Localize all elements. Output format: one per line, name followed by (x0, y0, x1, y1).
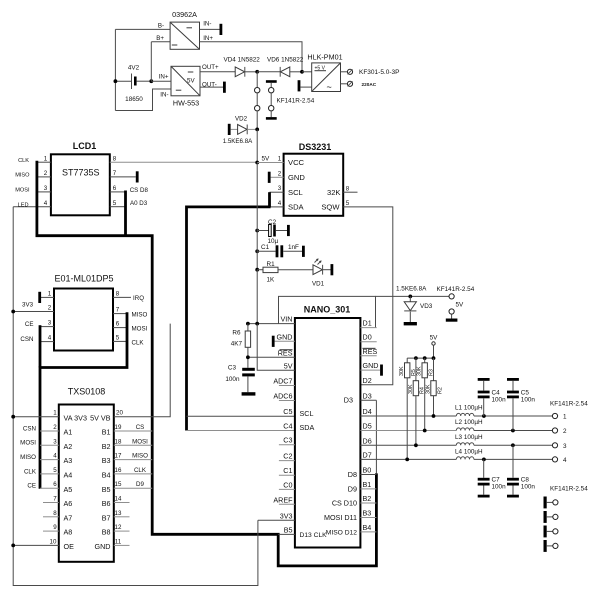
svg-text:5V: 5V (430, 335, 439, 342)
pull-up rail (407, 357, 433, 359)
svg-text:C7: C7 (492, 477, 501, 484)
wire 5V rail down from VD2 (256, 129, 258, 162)
ground bar at 03962A IN- (220, 24, 223, 35)
svg-text:C8: C8 (521, 477, 530, 484)
svg-text:MISO: MISO (15, 173, 30, 179)
connector KF141R-2.54 outputs (550, 401, 588, 464)
svg-text:E01-ML01DP5: E01-ML01DP5 (54, 274, 113, 284)
mcu NANO_301 chip box (295, 318, 361, 548)
svg-text:A4: A4 (64, 471, 73, 480)
nano pin AREF stub (279, 503, 295, 505)
svg-text:CLK: CLK (134, 467, 147, 474)
svg-text:VD1: VD1 (312, 281, 325, 288)
bus from LCD pins 5,6 down (124, 191, 127, 236)
txs pin 3 MOSI (40, 444, 59, 446)
ground bar at OUT- (223, 82, 226, 93)
ds3231 pin 4 SDA (270, 206, 284, 208)
svg-text:5: 5 (116, 334, 120, 341)
svg-text:4: 4 (563, 457, 567, 464)
svg-text:D2: D2 (363, 376, 372, 385)
svg-text:A6: A6 (64, 499, 73, 508)
lcd module LCD1 ST7735S (51, 141, 110, 215)
svg-text:R2: R2 (437, 387, 443, 394)
svg-text:3: 3 (278, 185, 282, 192)
svg-text:CS D8: CS D8 (130, 187, 149, 194)
svg-text:16: 16 (115, 467, 122, 474)
e01 pin 4 CSN (40, 341, 54, 343)
svg-text:3V3: 3V3 (22, 302, 34, 309)
svg-text:30K: 30K (417, 366, 423, 376)
inductor L4 100uH (455, 448, 552, 461)
svg-text:L4 100µH: L4 100µH (455, 448, 483, 455)
svg-text:14: 14 (115, 496, 122, 503)
left rail 3V3 vertical (13, 207, 258, 586)
svg-text:2: 2 (563, 428, 567, 435)
svg-text:100n: 100n (521, 484, 536, 491)
capacitor C1 1nF (255, 244, 304, 257)
ds3231 pin 5 SQW wire to nano D2 (343, 207, 393, 385)
svg-text:1nF: 1nF (288, 244, 299, 251)
svg-text:KF301-5.0-3P: KF301-5.0-3P (359, 69, 399, 76)
svg-text:C5: C5 (283, 407, 292, 416)
spi bus e01 right side down (40, 312, 127, 489)
svg-text:MOSI: MOSI (15, 188, 30, 194)
svg-text:CE: CE (25, 321, 34, 328)
svg-text:D6: D6 (363, 436, 372, 445)
diode VD2 1.5KE6.8A (223, 116, 257, 146)
svg-text:1.5KE6.8A: 1.5KE6.8A (223, 138, 253, 145)
svg-text:VD3: VD3 (420, 303, 433, 310)
svg-text:3: 3 (48, 320, 52, 327)
resistor R4 30K (408, 358, 426, 447)
txs pin 10 OE to rail (13, 544, 59, 546)
connector KF141R-2.54 bottom right (544, 486, 589, 552)
svg-text:C3: C3 (283, 436, 292, 445)
svg-text:7: 7 (53, 496, 57, 503)
svg-text:3: 3 (44, 185, 48, 192)
svg-text:IN-: IN- (160, 92, 168, 99)
svg-text:32K: 32K (327, 188, 341, 197)
svg-text:D5: D5 (363, 422, 372, 431)
bus e01 left CE/CSN join (39, 325, 42, 367)
svg-text:MOSI D11: MOSI D11 (324, 513, 357, 522)
txs pin 5 CLK (40, 473, 59, 475)
svg-text:5: 5 (346, 200, 350, 207)
resistor R5 30K (399, 358, 417, 461)
lcd pin 8 to 5V rail (110, 161, 257, 163)
svg-text:B2: B2 (363, 494, 372, 503)
svg-text:C0: C0 (283, 480, 292, 489)
svg-text:GND: GND (288, 173, 305, 182)
HW-553 OUT+ wire (200, 71, 235, 73)
svg-text:18: 18 (115, 438, 122, 445)
svg-text:MISO: MISO (132, 312, 148, 319)
svg-text:11: 11 (115, 538, 122, 545)
svg-text:CS D10: CS D10 (332, 499, 357, 508)
svg-text:C1: C1 (261, 244, 270, 251)
svg-text:B5: B5 (102, 485, 111, 494)
svg-text:B7: B7 (102, 513, 111, 522)
HW-553 OUT- wire to ground (200, 86, 223, 88)
svg-text:C2: C2 (283, 452, 292, 461)
lcd pin 5 (110, 206, 126, 208)
svg-text:VD4 1N5822: VD4 1N5822 (224, 57, 261, 64)
svg-text:9: 9 (53, 524, 57, 531)
svg-text:3: 3 (563, 443, 567, 450)
svg-text:5V: 5V (187, 77, 195, 84)
03962A IN- wire to ground (200, 28, 220, 30)
svg-text:R6: R6 (232, 330, 241, 337)
charger module 03962A (156, 10, 213, 49)
svg-text:8: 8 (113, 155, 117, 162)
svg-text:1: 1 (53, 410, 57, 417)
svg-text:MISO D12: MISO D12 (326, 529, 357, 536)
svg-text:MISO: MISO (132, 453, 148, 460)
nano pin B5 (278, 533, 295, 535)
svg-text:1K: 1K (267, 277, 276, 284)
svg-text:5V: 5V (284, 361, 293, 370)
svg-text:03962A: 03962A (172, 10, 197, 19)
svg-text:~: ~ (327, 82, 332, 92)
nano pin C2 stub (279, 460, 295, 462)
svg-text:DS3231: DS3231 (299, 142, 332, 152)
nano pin VIN (248, 323, 295, 325)
svg-text:17: 17 (115, 453, 122, 460)
e01 pin 2 3V3 to left rail (13, 311, 54, 313)
svg-text:SQW: SQW (321, 203, 340, 212)
svg-text:CS: CS (136, 424, 145, 431)
svg-text:B8: B8 (102, 528, 111, 537)
nano pin D6 wire to L3 (360, 444, 456, 446)
svg-text:5V: 5V (456, 302, 465, 309)
svg-text:VIN: VIN (281, 315, 293, 324)
node VD4/VD6 junction (255, 70, 259, 74)
svg-text:10: 10 (50, 538, 57, 545)
svg-text:VD2: VD2 (235, 116, 248, 123)
node VD2 output (255, 127, 259, 131)
nano pin C3 stub (279, 444, 295, 446)
node 5V at DS3231 (255, 161, 259, 165)
txs pin 18 MOSI (114, 444, 152, 446)
txs pin 11 stub (114, 544, 130, 546)
resistor R1 1K (255, 261, 313, 284)
e01 pin 1 to ground bar (41, 296, 54, 298)
svg-text:D0: D0 (363, 333, 372, 342)
svg-text:2: 2 (48, 305, 52, 312)
svg-text:KF141R-2.54: KF141R-2.54 (550, 401, 588, 408)
svg-text:OUT+: OUT+ (202, 64, 219, 71)
ds3231 pin 3 SCL (270, 191, 284, 193)
ground bar at HLK ac side (298, 80, 301, 91)
nano pin GND right with ground bar (360, 369, 380, 371)
wire C4 SDA to nano (187, 430, 295, 432)
svg-text:CE: CE (27, 483, 36, 490)
svg-text:IRQ: IRQ (133, 295, 144, 302)
txs pin 2 CSN (40, 430, 59, 432)
txs pin 4 MISO (40, 459, 59, 461)
svg-text:VD6 1N5822: VD6 1N5822 (267, 57, 304, 64)
nano pin ADC6 stub (279, 400, 295, 402)
svg-text:220AC: 220AC (362, 82, 377, 87)
svg-text:6: 6 (53, 481, 57, 488)
svg-text:C5: C5 (521, 390, 530, 397)
svg-text:ST7735S: ST7735S (62, 168, 100, 178)
level shifter TXS0108 (59, 387, 114, 562)
txs pin 14 stub (114, 502, 130, 504)
svg-text:SCL: SCL (300, 409, 314, 418)
txs pin 16 CLK (114, 473, 152, 475)
svg-text:C4: C4 (283, 422, 292, 431)
capacitor C4 100n (478, 378, 506, 416)
connector KF141R-2.54 5V (437, 286, 475, 322)
svg-text:18650: 18650 (125, 96, 143, 103)
svg-text:ADC7: ADC7 (273, 377, 292, 386)
ground bar at DS3231 GND (268, 172, 271, 183)
svg-text:8: 8 (346, 185, 350, 192)
svg-text:2: 2 (278, 170, 282, 177)
nano pin B2 stub to bus (360, 502, 376, 504)
lcd pin 3 (37, 191, 51, 193)
5V terminal for pull-ups (430, 335, 439, 359)
svg-text:D9: D9 (348, 484, 357, 493)
nano pin C1 stub (279, 474, 295, 476)
svg-text:100n: 100n (521, 397, 536, 404)
svg-text:1: 1 (278, 156, 282, 163)
svg-text:L1 100µH: L1 100µH (455, 405, 483, 412)
svg-text:100n: 100n (492, 484, 507, 491)
battery GB1 4V2 18650 (114, 29, 154, 110)
diode VD3 1.5KE6.8A (396, 286, 433, 326)
svg-text:MOSI: MOSI (132, 326, 148, 333)
svg-text:1.5KE6.8A: 1.5KE6.8A (396, 286, 427, 293)
svg-text:3: 3 (53, 438, 57, 445)
svg-text:2: 2 (53, 424, 57, 431)
svg-text:HLK-PM01: HLK-PM01 (307, 53, 342, 62)
svg-text:R1: R1 (267, 261, 276, 268)
svg-text:4: 4 (53, 453, 57, 460)
svg-text:VA 3V3: VA 3V3 (64, 413, 87, 422)
svg-text:4: 4 (278, 200, 282, 207)
svg-text:KF141R-2.54: KF141R-2.54 (437, 286, 475, 293)
nano pin B3 stub to bus (360, 517, 376, 519)
nano pin 3V3 (258, 519, 295, 521)
lcd pin 1 (37, 161, 51, 163)
svg-text:5: 5 (53, 467, 57, 474)
txs pin 20 VB riser to VIN node (114, 324, 170, 417)
capacitor C3 100n (225, 365, 255, 396)
capacitor C7 100n (478, 459, 506, 497)
inductor L1 100uH (455, 405, 552, 418)
txs pin 17 MISO (114, 459, 152, 461)
svg-text:GND: GND (95, 542, 111, 551)
rtc module DS3231 (284, 142, 344, 216)
txs pin 13 stub (114, 516, 130, 518)
svg-text:D1: D1 (363, 319, 372, 328)
svg-text:LED: LED (18, 202, 29, 208)
connector jumper pins KF141R-2.54 top (255, 72, 315, 130)
svg-text:KF141R-2.54: KF141R-2.54 (550, 486, 588, 493)
svg-text:8: 8 (116, 290, 120, 297)
svg-text:A5: A5 (64, 485, 73, 494)
svg-text:7: 7 (116, 307, 120, 314)
svg-text:B2: B2 (102, 442, 111, 451)
svg-text:NANO_301: NANO_301 (304, 305, 351, 315)
svg-text:B5: B5 (284, 525, 293, 534)
svg-text:2: 2 (44, 170, 48, 177)
svg-text:MOSI: MOSI (20, 440, 36, 447)
i2c bus to nano (187, 207, 271, 431)
inductor L3 100uH (455, 434, 552, 447)
svg-text:MOSI: MOSI (132, 438, 148, 445)
svg-text:D7: D7 (363, 450, 372, 459)
riser D3 to bus corner (375, 400, 377, 473)
svg-text:VCC: VCC (288, 158, 305, 167)
svg-text:20: 20 (116, 410, 123, 417)
svg-text:30K: 30K (399, 366, 405, 376)
svg-text:ADC6: ADC6 (273, 392, 292, 401)
svg-text:SCL: SCL (288, 188, 303, 197)
txs pin 1 to rail (13, 416, 59, 418)
svg-text:GND: GND (363, 361, 379, 370)
e01 pin 5 CLK (113, 340, 127, 342)
svg-text:A0 D3: A0 D3 (130, 200, 148, 207)
svg-text:B3: B3 (363, 509, 372, 518)
nano pin RES right stub (360, 355, 376, 357)
svg-text:IN+: IN+ (203, 35, 213, 42)
e01 pin 8 IRQ stub (113, 296, 131, 298)
svg-text:1: 1 (48, 290, 52, 297)
svg-text:6: 6 (116, 321, 120, 328)
svg-text:6: 6 (113, 185, 117, 192)
bus from LCD pins 1-3 down and across (37, 161, 377, 566)
svg-text:100n: 100n (225, 376, 240, 383)
svg-text:4K7: 4K7 (231, 341, 243, 348)
svg-text:B6: B6 (102, 499, 111, 508)
svg-text:8: 8 (53, 510, 57, 517)
led VD1 (312, 258, 333, 287)
inductor L2 100uH (455, 419, 552, 432)
svg-text:12: 12 (115, 524, 122, 531)
rf module E01-ML01DP5 (54, 274, 114, 351)
svg-text:5V: 5V (262, 156, 271, 163)
svg-text:CLK: CLK (24, 468, 37, 475)
03962A IN+ wire to HLK node (200, 42, 303, 72)
resistor R3 30K (417, 358, 435, 432)
txs pin 7 stub (43, 502, 59, 504)
svg-text:C3: C3 (228, 365, 237, 372)
wire C5 SCL to nano (187, 415, 295, 417)
HW-553 IN+ wire (151, 80, 171, 82)
svg-text:1: 1 (563, 414, 567, 421)
svg-text:CSN: CSN (23, 425, 36, 432)
txs pin 12 stub (114, 530, 130, 532)
txs pin 8 stub (43, 516, 59, 518)
svg-text:D13 CLK: D13 CLK (300, 532, 328, 539)
wire 5V out of nano top to VD3/KF141R (376, 295, 450, 297)
svg-text:4: 4 (48, 335, 52, 342)
svg-text:OE: OE (64, 542, 75, 551)
svg-text:30K: 30K (408, 384, 414, 394)
svg-text:A2: A2 (64, 442, 73, 451)
txs pin 9 stub (43, 530, 59, 532)
wire 5V rail C2-C1-R1 (256, 163, 258, 270)
svg-text:A7: A7 (64, 513, 73, 522)
resistor R6 4K7 (231, 322, 251, 368)
node HLK input junction (300, 70, 304, 74)
e01 pin 6 MOSI (113, 327, 127, 329)
capacitor C2 10u (255, 219, 289, 245)
svg-text:B4: B4 (102, 471, 111, 480)
svg-text:TXS0108: TXS0108 (68, 387, 106, 397)
svg-text:CLK: CLK (18, 158, 29, 164)
svg-text:D8: D8 (348, 470, 357, 479)
svg-text:SDA: SDA (288, 203, 305, 212)
nano pin D0 stub (360, 341, 376, 343)
lcd pin 6 (110, 191, 126, 193)
svg-text:LCD1: LCD1 (73, 141, 97, 151)
ds3231 pin 2 GND (271, 176, 284, 178)
svg-text:B3: B3 (102, 456, 111, 465)
nano pin D5 wire to L2 (360, 430, 456, 432)
diode VD4 1N5822 (224, 57, 261, 77)
svg-text:19: 19 (115, 424, 122, 431)
connector KF301-5.0-3P (341, 69, 400, 87)
e01 pin 7 MISO (113, 313, 127, 315)
resistor R2 30K (425, 358, 443, 418)
nano pin D1 stub (360, 327, 376, 329)
nano pin 5V (257, 324, 295, 371)
svg-text:5V VB: 5V VB (90, 413, 111, 422)
nano pin B1 stub to bus (360, 488, 376, 490)
nano pin D3 (360, 399, 376, 401)
svg-text:A1: A1 (64, 428, 73, 437)
svg-text:13: 13 (115, 510, 122, 517)
svg-text:HW-553: HW-553 (173, 99, 199, 108)
svg-text:3V3: 3V3 (280, 511, 293, 520)
svg-text:C4: C4 (492, 390, 501, 397)
svg-text:10µ: 10µ (268, 238, 279, 245)
svg-text:C1: C1 (283, 466, 292, 475)
ds3231 pin 1 VCC (257, 162, 283, 164)
svg-text:D4: D4 (363, 407, 372, 416)
svg-text:AREF: AREF (273, 495, 293, 504)
svg-text:B4: B4 (363, 523, 372, 532)
nano pin GND left with ground bar (275, 340, 295, 342)
wire battery+ to B+ riser (150, 42, 152, 81)
svg-text:4: 4 (44, 200, 48, 207)
svg-text:15: 15 (115, 481, 122, 488)
svg-text:CLK: CLK (132, 339, 145, 346)
capacitor C5 100n (507, 378, 535, 431)
svg-text:B0: B0 (363, 466, 372, 475)
svg-text:IN+: IN+ (159, 74, 169, 81)
nano pin D4 wire to L1 (360, 415, 456, 417)
nano pin B4 stub to bus (360, 531, 376, 533)
svg-text:B-: B- (158, 23, 164, 30)
svg-text:B1: B1 (363, 480, 372, 489)
svg-text:A8: A8 (64, 528, 73, 537)
mcu module NANO_301 outline (279, 296, 376, 327)
svg-text:IN-: IN- (203, 20, 211, 27)
svg-text:MISO: MISO (20, 454, 36, 461)
svg-text:CSN: CSN (20, 336, 33, 343)
txs pin 19 CS (114, 430, 152, 432)
e01 pin 3 CE (40, 326, 54, 328)
txs pin 15 D9 (114, 487, 152, 489)
svg-text:30K: 30K (425, 384, 431, 394)
nano pin RES left (248, 356, 295, 358)
svg-text:C2: C2 (268, 219, 277, 226)
